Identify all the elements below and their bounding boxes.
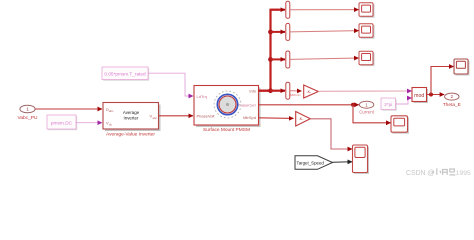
wire bus trunk [271, 10, 280, 91]
outport 2 Theta_E [443, 93, 461, 108]
svg-text:LdTrq: LdTrq [197, 94, 207, 99]
junction node mod output [429, 93, 433, 97]
svg-text:1995: 1995 [456, 170, 471, 177]
svg-text:mod: mod [414, 93, 424, 99]
from tag Target_Speed [295, 156, 333, 170]
wire demux1 to scope1 [290, 9, 359, 11]
svg-text:2*pi: 2*pi [384, 102, 392, 107]
scope Scope1 [359, 3, 375, 18]
scope Scope3 [359, 51, 375, 66]
wire 2*pi to mod [396, 98, 412, 104]
svg-text:Vabc_PU: Vabc_PU [18, 115, 38, 121]
svg-text:Theta_E: Theta_E [443, 102, 461, 108]
svg-text:PhaseVolt: PhaseVolt [197, 113, 216, 118]
svg-text:pmsm.DC: pmsm.DC [51, 121, 73, 127]
constant 0.05*pmsm.T_rated [102, 67, 149, 81]
wire row2 into demux2 [271, 31, 286, 33]
scope Scope2 [359, 24, 375, 39]
junction node Info row4 [268, 88, 273, 93]
scope Scope4 two inputs [353, 145, 370, 174]
wire Info bus [259, 89, 271, 91]
gain K2 [296, 112, 311, 127]
subsystem Average-Value Inverter [103, 103, 161, 138]
wire Vabc_PU to D_abc [35, 108, 102, 110]
wire demux2 to scope2 [290, 31, 359, 32]
wire V_abc to PhaseVolt [159, 115, 194, 117]
demux selector 4 [286, 82, 290, 99]
svg-text:Average: Average [123, 110, 140, 115]
junction node row3 [268, 57, 273, 62]
svg-text:Surface Mount PMSM: Surface Mount PMSM [203, 127, 250, 133]
svg-text:0.05*pmsm.T_rated: 0.05*pmsm.T_rated [104, 71, 146, 76]
svg-text:<MtrPos>: <MtrPos> [289, 93, 302, 97]
scope Scope5 [391, 116, 409, 134]
svg-text:PhaseCurr: PhaseCurr [237, 103, 257, 108]
demux selector 3 [286, 51, 290, 68]
constant 2*pi [381, 98, 397, 111]
wire MtrSpd to gain2 [259, 117, 294, 120]
svg-text:MtrSpd: MtrSpd [243, 115, 256, 120]
svg-text:-K-: -K- [306, 90, 312, 94]
math function mod [412, 88, 428, 104]
junction node row2 [268, 30, 273, 35]
scope Scope6 [454, 59, 470, 76]
svg-text:CSDN @: CSDN @ [406, 170, 434, 177]
svg-text:abc: abc [109, 109, 114, 113]
wire row1 into demux1 [271, 9, 285, 11]
junction node PhaseCurr [351, 103, 355, 107]
wire Target_Speed to scope4 input2 [333, 161, 353, 164]
wire PhaseCurr to Current [259, 104, 359, 106]
constant pmsm.DC [47, 115, 77, 130]
wire mod output up to scope6 [431, 67, 454, 95]
svg-text:Target_Speed: Target_Speed [297, 160, 325, 165]
wire demux4 to gain1 with signal label [290, 90, 302, 92]
svg-text:-K-: -K- [299, 117, 305, 121]
svg-text:abc: abc [153, 116, 158, 120]
wire gain2 to scope4 input1 [310, 119, 352, 149]
demux selector 1 [286, 1, 290, 18]
wire PhaseCurr junction down to scope5 [353, 105, 391, 123]
subsystem Surface Mount PMSM [194, 86, 261, 134]
wire mod output to Theta_E [427, 94, 445, 96]
wire row3 into demux3 [271, 58, 286, 60]
wire gain1 to mod [318, 90, 411, 92]
wire row4 into demux4 [271, 90, 286, 92]
PMSM motor icon [214, 91, 241, 118]
svg-text:Current: Current [359, 110, 374, 115]
svg-text:1: 1 [26, 107, 29, 112]
gain K1 [304, 85, 319, 98]
svg-text:Average-Value Inverter: Average-Value Inverter [106, 132, 155, 138]
wire demux3 to scope3 [290, 58, 359, 59]
watermark CSDN [406, 168, 471, 177]
inport 1 Vabc_PU [18, 105, 38, 121]
wire pmsm.DC to V_dc [76, 122, 102, 124]
outport 1 Current [359, 101, 374, 114]
demux selector 2 [286, 23, 290, 40]
wire T_rated to LdTrq [148, 73, 193, 96]
svg-text:Info: Info [249, 88, 256, 93]
svg-text:Inverter: Inverter [124, 115, 139, 120]
